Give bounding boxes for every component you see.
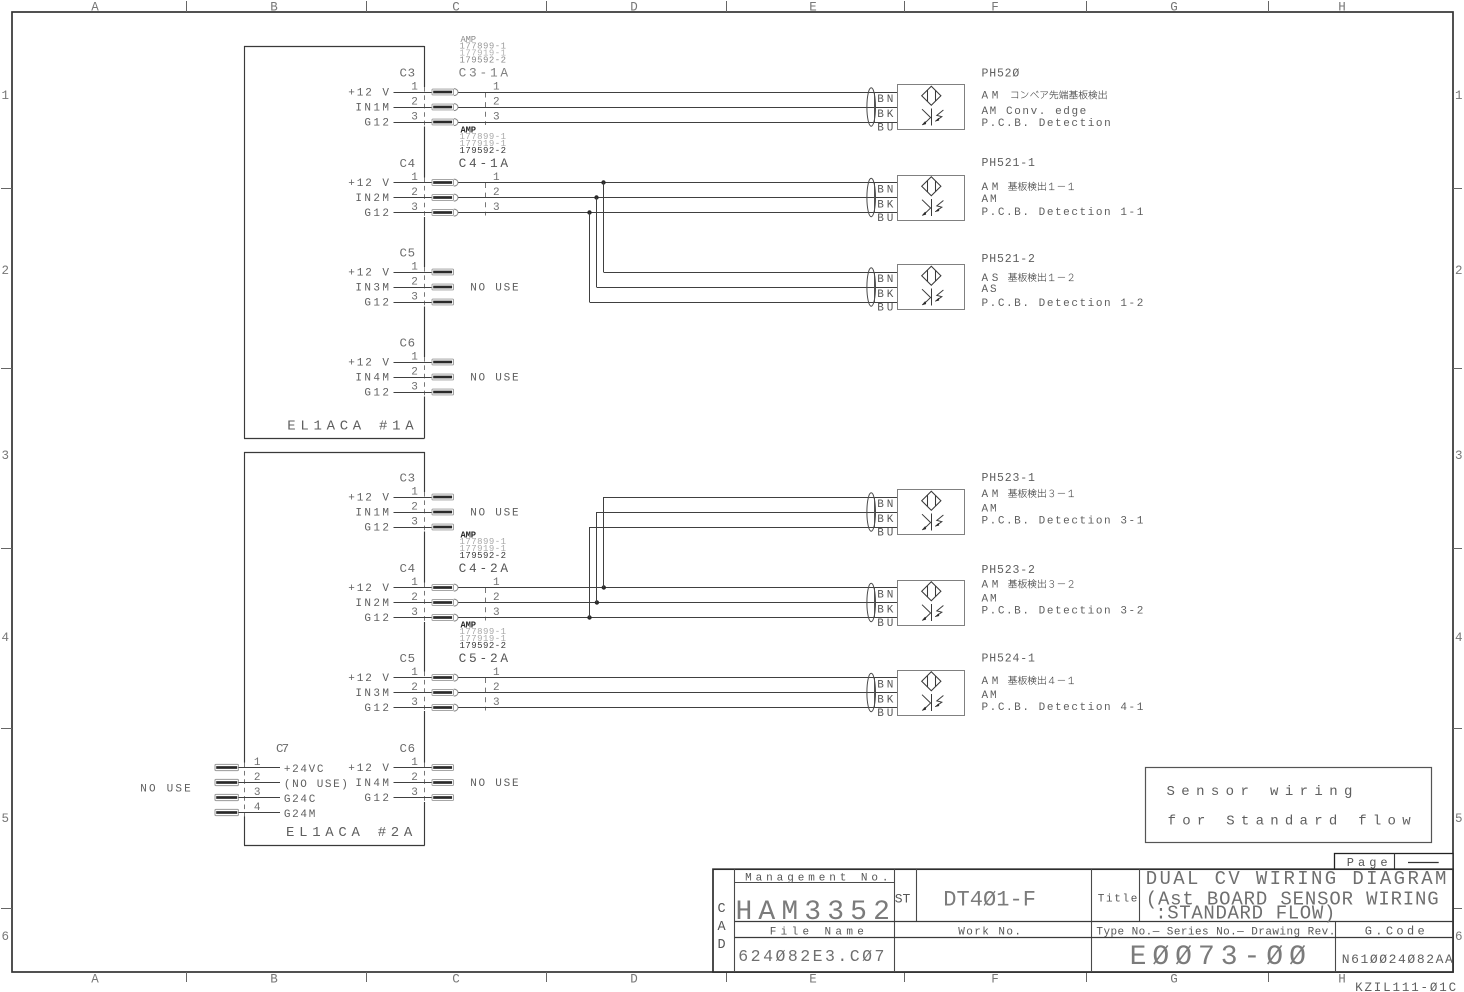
svg-text:D: D: [630, 973, 638, 987]
C4 pin 2 signal label IN2M: [355, 598, 389, 610]
wire C4-1A pin 2 to PH521-1: [458, 197, 897, 199]
svg-text:2: 2: [411, 501, 418, 513]
sensor PH520: [867, 85, 965, 135]
wire G12 to C6 pin 3: [394, 392, 433, 394]
connector C5: [400, 247, 416, 261]
svg-text:1: 1: [411, 351, 418, 363]
C5 pin 3 signal label G12: [364, 703, 389, 715]
C6 pin 3 signal label G12: [364, 793, 389, 805]
C6 pin 3 signal label G12: [364, 387, 389, 399]
wire C5-2A pin 3 to PH524-1: [458, 707, 897, 709]
svg-text:B: B: [270, 973, 278, 987]
svg-text:C3-1A: C3-1A: [459, 66, 509, 81]
C4 pin 2 signal label IN2M: [355, 193, 389, 205]
svg-text:C: C: [452, 1, 460, 15]
svg-text:3: 3: [411, 291, 418, 303]
svg-text:P.C.B. Detection 3-1: P.C.B. Detection 3-1: [982, 516, 1144, 528]
C3 pin 2 number: [411, 501, 418, 513]
mating side pin 3 number: [493, 697, 500, 709]
C4 pin 2 number: [411, 592, 418, 604]
wire G12 to C5 pin 3: [394, 707, 433, 709]
wire +12 V to C4 pin 1: [394, 182, 433, 184]
connector C5: [400, 652, 416, 666]
svg-text:E: E: [809, 973, 817, 987]
mating side pin 3 number: [493, 202, 500, 214]
C4 pin 1 signal label +12 V: [348, 178, 389, 190]
sensor PH521-2: [867, 265, 965, 315]
svg-text:ST: ST: [895, 892, 911, 907]
svg-text:C3: C3: [400, 472, 416, 486]
C5 pin 1 number: [411, 261, 418, 273]
svg-text:for Standard flow: for Standard flow: [1168, 814, 1412, 830]
drawing number E0073-00: [1130, 942, 1306, 973]
svg-text:PH521-1: PH521-1: [982, 157, 1035, 170]
svg-text:6: 6: [1, 930, 9, 944]
wire +12 V to C5 pin 1: [394, 677, 433, 679]
C3 pin 3 signal label G12: [364, 522, 389, 534]
svg-text:C4-1A: C4-1A: [459, 156, 509, 171]
svg-text:AM: AM: [982, 504, 997, 516]
wire C4-1A pin 1 to PH521-1: [458, 182, 897, 184]
wire tap up to PH523-1 lead 1: [604, 497, 898, 588]
lower C6 NO USE label: [470, 778, 519, 790]
svg-text:Type No.— Series No.— Drawing: Type No.— Series No.— Drawing Rev.: [1096, 927, 1335, 939]
C3 pin 2 crimp terminal: [432, 509, 454, 515]
svg-text:D: D: [718, 938, 726, 953]
wire tap down to PH521-2 lead 1: [604, 183, 898, 273]
C3 pin 3 number: [411, 111, 418, 123]
sensor PH521-2 english description line 1: [982, 284, 997, 296]
C3 pin 1 signal label +12 V: [348, 492, 389, 504]
Work No. header: [958, 926, 1021, 938]
C4 pin 3 crimp terminal: [432, 614, 458, 621]
C7 pin 2 number: [254, 772, 261, 784]
svg-text:PH523-2: PH523-2: [982, 564, 1035, 577]
svg-text:+12 V: +12 V: [348, 267, 389, 279]
connector C4: [400, 562, 416, 576]
C3 pin 2 signal label IN1M: [355, 102, 389, 114]
junction on C4-2A pin 2 wire: [595, 600, 599, 604]
wire +12 V to C6 pin 1: [394, 767, 433, 769]
C5 pin 2 signal label IN3M: [355, 282, 389, 294]
junction on C4-2A pin 3 wire: [587, 615, 591, 619]
svg-text:A: A: [91, 1, 99, 15]
svg-text:2: 2: [254, 772, 261, 784]
wire tap up to PH523-1 lead 2: [597, 512, 898, 603]
C4 pin 1 crimp terminal: [432, 179, 458, 186]
wire IN2M to C4 pin 2: [394, 602, 433, 604]
svg-text:1: 1: [411, 81, 418, 93]
svg-text:2: 2: [411, 276, 418, 288]
Management No. header: [745, 873, 888, 885]
C3 pin 2 crimp terminal: [432, 104, 458, 111]
C5 pin 2 number: [411, 276, 418, 288]
C5 pin 1 crimp terminal: [432, 269, 454, 275]
sensor PH523-1 japanese description: [982, 489, 1074, 501]
svg-text:2: 2: [411, 366, 418, 378]
C7 pin 1 crimp terminal: [215, 764, 238, 770]
svg-text:3: 3: [411, 516, 418, 528]
C3 pin 1 crimp terminal: [432, 494, 454, 500]
C5 pin 1 crimp terminal: [432, 674, 458, 681]
svg-text:G: G: [1170, 1, 1178, 15]
mating connector boundary (dashed) for C4: [485, 183, 487, 216]
mating side pin 3 number: [493, 607, 500, 619]
svg-text:5: 5: [1455, 812, 1463, 826]
svg-text:C4-2A: C4-2A: [459, 561, 509, 576]
block EL1ACA #1A name label: [287, 419, 414, 435]
sensor PH523-1 reference label: [982, 472, 1035, 485]
svg-text:AM Conv. edge: AM Conv. edge: [982, 106, 1087, 118]
sensor PH520 english description line 1: [982, 106, 1087, 118]
G code N610024082AA: [1342, 952, 1453, 967]
wire G12 to C3 pin 3: [394, 122, 433, 124]
wire C3-1A pin 2 to PH520: [458, 107, 897, 109]
Type No. header: [1096, 927, 1335, 939]
wire C7 pin 3: [238, 797, 280, 799]
sensor PH523-1 english description line 1: [982, 504, 997, 516]
junction on C4-2A pin 1 wire: [602, 585, 606, 589]
C5 pin 2 crimp terminal: [432, 689, 458, 696]
svg-text:3: 3: [411, 381, 418, 393]
C7 pin 4 crimp terminal: [215, 809, 238, 815]
file name 624082E3.C07: [738, 947, 884, 966]
svg-text:B: B: [270, 1, 278, 15]
mating side pin 1 number: [493, 81, 500, 93]
wire IN1M to C3 pin 2: [394, 512, 433, 514]
svg-text:N61ØØ24Ø82AA: N61ØØ24Ø82AA: [1342, 952, 1453, 967]
svg-text:C5: C5: [400, 247, 416, 261]
C7 pin 3 number: [254, 787, 261, 799]
C4 pin 1 number: [411, 577, 418, 589]
svg-text:+12 V: +12 V: [348, 178, 389, 190]
wire +12 V to C5 pin 1: [394, 272, 433, 274]
wire C7 pin 4: [238, 812, 280, 814]
svg-text:C4: C4: [400, 562, 416, 576]
drawing title text: [1146, 868, 1447, 925]
wire C4-2A pin 1 to PH523-2: [458, 587, 897, 589]
C5 pin 1 number: [411, 667, 418, 679]
C5 pin 2 number: [411, 682, 418, 694]
wire IN2M to C4 pin 2: [394, 197, 433, 199]
C6 pin 1 signal label +12 V: [348, 763, 389, 775]
wire IN4M to C6 pin 2: [394, 782, 433, 784]
svg-text:2: 2: [1, 264, 9, 278]
C7 pin 1 number: [254, 757, 261, 769]
sensor PH521-1 english description line 1: [982, 194, 997, 206]
svg-text:4: 4: [254, 802, 261, 814]
C5 NO USE label: [470, 282, 519, 294]
mating connector boundary (dashed) for C4: [485, 588, 487, 621]
block EL1ACA #2A name label: [286, 825, 413, 841]
svg-text:+12 V: +12 V: [348, 763, 389, 775]
svg-text:C: C: [452, 973, 460, 987]
C3 pin 1 signal label +12 V: [348, 87, 389, 99]
junction on C4-1A pin 1 wire: [601, 180, 605, 184]
junction on C4-1A pin 2 wire: [594, 195, 598, 199]
G.Code header: [1365, 924, 1425, 938]
svg-text:P.C.B. Detection 4-1: P.C.B. Detection 4-1: [982, 702, 1144, 714]
svg-text:2: 2: [411, 96, 418, 108]
C6 pin 1 crimp terminal: [432, 359, 454, 365]
C5 pin 2 crimp terminal: [432, 284, 454, 290]
wire +12 V to C3 pin 1: [394, 92, 433, 94]
mating connector boundary (dashed) for C3: [485, 93, 487, 126]
svg-text:PH52Ø: PH52Ø: [982, 68, 1020, 81]
svg-text:3: 3: [493, 111, 500, 123]
wire C4-1A pin 3 to PH521-1: [458, 212, 897, 214]
svg-text:PH521-2: PH521-2: [982, 253, 1035, 266]
C6 pin 3 number: [411, 787, 418, 799]
svg-text:Work No.: Work No.: [958, 926, 1021, 938]
AMP connector part numbers for C3-1A: [459, 35, 509, 81]
svg-text:A: A: [718, 920, 727, 935]
C6 pin 1 number: [411, 351, 418, 363]
ST number DT401-F: [943, 887, 1036, 912]
svg-text:C7: C7: [276, 742, 289, 756]
sensor PH523-2 english description line 1: [982, 594, 997, 606]
svg-text:AM: AM: [982, 594, 997, 606]
C6 pin 2 number: [411, 772, 418, 784]
svg-text:G24C: G24C: [284, 794, 316, 806]
wire G12 to C4 pin 3: [394, 212, 433, 214]
sensor PH524-1 english description line 1: [982, 690, 997, 702]
mating side pin 3 number: [493, 111, 500, 123]
sensor PH520 japanese description: [982, 90, 1107, 102]
C6 pin 1 crimp terminal: [432, 765, 454, 771]
mating side pin 1 number: [493, 577, 500, 589]
mating side pin 2 number: [493, 187, 500, 199]
svg-text:AM: AM: [982, 194, 997, 206]
svg-text:C3: C3: [400, 67, 416, 81]
connector C3: [400, 67, 416, 81]
svg-text:+12 V: +12 V: [348, 357, 389, 369]
svg-text:C6: C6: [400, 742, 416, 756]
wire C3-1A pin 1 to PH520: [458, 92, 897, 94]
C6 pin 3 number: [411, 381, 418, 393]
svg-text:1: 1: [493, 81, 500, 93]
svg-text:G12: G12: [364, 793, 389, 805]
svg-text:1: 1: [254, 757, 261, 769]
mating connector boundary (dashed) for C5: [485, 678, 487, 711]
C7 pin 4 number: [254, 802, 261, 814]
svg-text:(NO USE): (NO USE): [284, 779, 348, 791]
lower C3 NO USE label: [470, 507, 519, 519]
svg-text:PH524-1: PH524-1: [982, 653, 1035, 666]
svg-text:G12: G12: [364, 703, 389, 715]
C6 pin 3 crimp terminal: [432, 389, 454, 395]
sensor PH521-1 reference label: [982, 157, 1035, 170]
svg-text:G12: G12: [364, 613, 389, 625]
svg-text:G12: G12: [364, 117, 389, 129]
C6 pin 2 number: [411, 366, 418, 378]
svg-text:G: G: [1170, 973, 1178, 987]
svg-text:PH523-1: PH523-1: [982, 472, 1035, 485]
C4 pin 3 signal label G12: [364, 613, 389, 625]
svg-text:2: 2: [493, 96, 500, 108]
C3 pin 2 number: [411, 96, 418, 108]
sensor PH521-2 reference label: [982, 253, 1035, 266]
sensor PH524-1 japanese description: [982, 676, 1074, 688]
sensor PH521-1 english description line 2: [982, 207, 1144, 219]
sensor PH523-2: [867, 581, 965, 631]
sensor PH521-2 english description line 2: [982, 298, 1144, 310]
C4 pin 2 crimp terminal: [432, 194, 458, 201]
mating side pin 2 number: [493, 592, 500, 604]
AMP connector part numbers for C4-1A: [459, 126, 509, 172]
C6 pin 2 signal label IN4M: [355, 778, 389, 790]
svg-text:1: 1: [1455, 89, 1463, 103]
C7 pin 2 crimp terminal: [215, 779, 238, 785]
wire +12 V to C3 pin 1: [394, 497, 433, 499]
sensor PH523-1 english description line 2: [982, 516, 1144, 528]
C5 pin 2 signal label IN3M: [355, 688, 389, 700]
svg-text:H: H: [1338, 1, 1346, 15]
mating side pin 1 number: [493, 172, 500, 184]
svg-text:C4: C4: [400, 157, 416, 171]
connector C4: [400, 157, 416, 171]
sensor PH524-1 reference label: [982, 653, 1035, 666]
C3 pin 1 crimp terminal: [432, 89, 458, 96]
wire C7 pin 1: [238, 767, 280, 769]
svg-text:C: C: [718, 902, 726, 917]
C7 pin 4 signal label G24M: [284, 809, 315, 821]
svg-text:D: D: [630, 1, 638, 15]
C5 pin 3 number: [411, 291, 418, 303]
mating side pin 1 number: [493, 667, 500, 679]
wire IN3M to C5 pin 2: [394, 692, 433, 694]
svg-text:G12: G12: [364, 522, 389, 534]
C3 pin 1 number: [411, 81, 418, 93]
C5 pin 3 crimp terminal: [432, 704, 458, 711]
wire +12 V to C6 pin 1: [394, 362, 433, 364]
C7 pin 3 crimp terminal: [215, 794, 238, 800]
document code KZIL111-01C: [1355, 981, 1456, 992]
svg-text:F: F: [991, 1, 999, 15]
svg-text:File Name: File Name: [770, 926, 864, 938]
svg-text:DT4Ø1-F: DT4Ø1-F: [943, 887, 1036, 912]
wire IN1M to C3 pin 2: [394, 107, 433, 109]
C4 pin 3 number: [411, 202, 418, 214]
C6 pin 3 crimp terminal: [432, 795, 454, 801]
wire G12 to C3 pin 3: [394, 527, 433, 529]
C3 pin 2 signal label IN1M: [355, 507, 389, 519]
svg-text:AM: AM: [982, 690, 997, 702]
svg-text:179592-2: 179592-2: [460, 56, 507, 66]
connector C6: [400, 742, 416, 756]
sensor PH520 reference label: [982, 68, 1020, 81]
svg-text:C5: C5: [400, 652, 416, 666]
C4 pin 1 signal label +12 V: [348, 583, 389, 595]
svg-text:3: 3: [411, 111, 418, 123]
C7 pin 2 signal label (NO USE): [284, 779, 348, 791]
sensor PH520 english description line 2: [982, 118, 1111, 130]
C4 pin 1 number: [411, 172, 418, 184]
wire IN4M to C6 pin 2: [394, 377, 433, 379]
svg-text:1: 1: [1, 89, 9, 103]
svg-text:1: 1: [411, 486, 418, 498]
management number HAM3352: [736, 897, 890, 928]
C5 pin 3 number: [411, 697, 418, 709]
svg-text:KZIL111-Ø1C: KZIL111-Ø1C: [1355, 981, 1456, 992]
note box: Sensor wiring for Standard flow: [1146, 768, 1432, 843]
C4 pin 3 crimp terminal: [432, 209, 458, 216]
svg-text:3: 3: [1, 449, 9, 463]
svg-text:6: 6: [1455, 930, 1463, 944]
C7 NO USE label: [140, 783, 191, 795]
junction on C4-1A pin 3 wire: [587, 210, 591, 214]
wire C3-1A pin 3 to PH520: [458, 122, 897, 124]
wire G12 to C4 pin 3: [394, 617, 433, 619]
C7 pin 1 signal label +24VC: [284, 764, 324, 776]
svg-text:+12 V: +12 V: [348, 87, 389, 99]
wire C4-2A pin 2 to PH523-2: [458, 602, 897, 604]
C5 pin 3 signal label G12: [364, 297, 389, 309]
svg-text:4: 4: [1, 631, 9, 645]
svg-text:2: 2: [1455, 264, 1463, 278]
svg-text:G12: G12: [364, 387, 389, 399]
connector C6: [400, 337, 416, 351]
connector C3: [400, 472, 416, 486]
wire C5-2A pin 1 to PH524-1: [458, 677, 897, 679]
C3 pin 3 crimp terminal: [432, 524, 454, 530]
C6 NO USE label: [470, 372, 519, 384]
svg-text:C5-2A: C5-2A: [459, 651, 509, 666]
svg-text:+12 V: +12 V: [348, 673, 389, 685]
svg-text:HAM3352: HAM3352: [736, 897, 890, 928]
svg-text:G24M: G24M: [284, 809, 315, 821]
C5 pin 1 signal label +12 V: [348, 267, 389, 279]
svg-text:AS: AS: [982, 284, 997, 296]
page number box: [1335, 854, 1454, 871]
wire tap down to PH521-2 lead 2: [597, 198, 898, 288]
C6 pin 1 number: [411, 757, 418, 769]
C4 pin 1 crimp terminal: [432, 584, 458, 591]
C3 pin 3 signal label G12: [364, 117, 389, 129]
C6 pin 2 crimp terminal: [432, 374, 454, 380]
svg-text:F: F: [991, 973, 999, 987]
C3 pin 3 number: [411, 516, 418, 528]
C4 pin 3 number: [411, 607, 418, 619]
AMP connector part numbers for C4-2A: [459, 531, 509, 577]
wire G12 to C5 pin 3: [394, 302, 433, 304]
wire +12 V to C4 pin 1: [394, 587, 433, 589]
mating side pin 2 number: [493, 96, 500, 108]
C5 pin 1 signal label +12 V: [348, 673, 389, 685]
C4 pin 3 signal label G12: [364, 208, 389, 220]
sensor PH524-1 english description line 2: [982, 702, 1144, 714]
sensor PH523-2 reference label: [982, 564, 1035, 577]
wire tap down to PH521-2 lead 3: [590, 213, 898, 303]
C6 pin 1 signal label +12 V: [348, 357, 389, 369]
wire G12 to C6 pin 3: [394, 797, 433, 799]
svg-text:H: H: [1338, 973, 1346, 987]
svg-text:E: E: [809, 1, 817, 15]
C3 pin 1 number: [411, 486, 418, 498]
C6 pin 2 crimp terminal: [432, 780, 454, 786]
svg-text:3: 3: [1455, 449, 1463, 463]
wire IN3M to C5 pin 2: [394, 287, 433, 289]
svg-text:179592-2: 179592-2: [460, 551, 507, 561]
title block: [713, 869, 1453, 972]
svg-text:+12 V: +12 V: [348, 492, 389, 504]
C5 pin 3 crimp terminal: [432, 299, 454, 305]
File Name header: [770, 926, 864, 938]
svg-text::STANDARD FLOW): :STANDARD FLOW): [1155, 903, 1335, 925]
mating side pin 2 number: [493, 682, 500, 694]
svg-text:P.C.B. Detection 1-1: P.C.B. Detection 1-1: [982, 207, 1144, 219]
svg-text:5: 5: [1, 812, 9, 826]
